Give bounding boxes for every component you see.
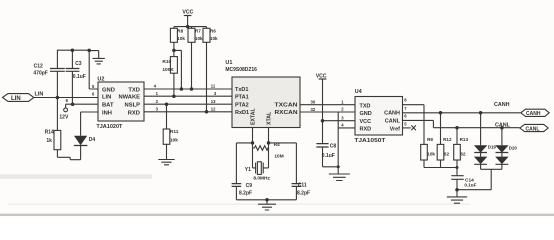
svg-text:1k: 1k (46, 138, 52, 144)
svg-text:CANH: CANH (526, 111, 541, 117)
svg-text:NWAKE: NWAKE (119, 95, 141, 101)
svg-text:0.1uF: 0.1uF (73, 74, 86, 80)
svg-text:Y1: Y1 (245, 167, 251, 173)
svg-text:D20: D20 (509, 145, 518, 150)
svg-text:TXD: TXD (360, 104, 371, 110)
svg-text:12: 12 (211, 107, 216, 112)
svg-text:U4: U4 (355, 89, 363, 95)
svg-text:10k: 10k (210, 36, 218, 41)
svg-text:8.2pF: 8.2pF (239, 191, 252, 197)
svg-text:CANL: CANL (495, 123, 511, 129)
svg-text:VCC: VCC (182, 10, 193, 16)
svg-text:C3: C3 (75, 61, 82, 67)
svg-text:TJA1050T: TJA1050T (354, 138, 386, 144)
svg-text:13: 13 (211, 99, 216, 104)
svg-text:TxD1: TxD1 (235, 87, 248, 93)
svg-text:R10: R10 (162, 59, 171, 65)
svg-text:RxD1: RxD1 (235, 110, 249, 116)
svg-text:VCC: VCC (316, 74, 327, 80)
svg-text:U2: U2 (97, 77, 104, 83)
svg-text:GND: GND (102, 87, 115, 93)
svg-text:C8: C8 (330, 144, 337, 150)
svg-text:100K: 100K (162, 67, 174, 73)
svg-text:TXCAN: TXCAN (275, 102, 298, 108)
svg-text:0.1uF: 0.1uF (464, 183, 476, 188)
svg-text:32: 32 (311, 107, 316, 112)
svg-text:CANH: CANH (384, 111, 400, 117)
svg-text:INH: INH (102, 110, 112, 116)
svg-text:R13: R13 (460, 137, 469, 142)
svg-text:CANL: CANL (526, 127, 540, 133)
svg-text:R12: R12 (443, 137, 452, 142)
svg-text:LIN: LIN (102, 95, 111, 101)
svg-text:62: 62 (444, 151, 450, 156)
svg-text:GND: GND (360, 111, 372, 117)
svg-text:C11: C11 (298, 183, 307, 189)
svg-text:MC9S08DZ16: MC9S08DZ16 (225, 67, 257, 73)
svg-text:Vref: Vref (390, 126, 401, 132)
svg-text:10k: 10k (170, 137, 178, 143)
svg-text:TXD: TXD (128, 87, 140, 93)
svg-text:D19: D19 (488, 144, 497, 149)
svg-text:R14: R14 (45, 129, 54, 135)
svg-text:RXD: RXD (360, 127, 372, 133)
svg-text:PTA1: PTA1 (235, 94, 249, 100)
svg-text:R8: R8 (177, 29, 183, 34)
svg-text:LIN: LIN (11, 96, 21, 102)
svg-text:470pF: 470pF (33, 70, 47, 76)
svg-text:R7: R7 (195, 29, 201, 34)
svg-text:D4: D4 (89, 137, 96, 143)
svg-text:8.0MHz: 8.0MHz (253, 176, 270, 182)
svg-text:C9: C9 (246, 183, 253, 189)
svg-text:11: 11 (211, 84, 216, 89)
svg-text:12V: 12V (59, 115, 69, 121)
svg-text:8.2pF: 8.2pF (297, 191, 310, 197)
svg-text:10k: 10k (177, 36, 185, 41)
svg-text:U1: U1 (225, 60, 232, 66)
svg-text:PTA2: PTA2 (235, 102, 249, 108)
svg-text:C12: C12 (34, 64, 43, 70)
svg-text:10k: 10k (427, 151, 435, 156)
svg-text:R6: R6 (210, 29, 216, 34)
svg-text:R11: R11 (170, 129, 179, 135)
svg-text:10M: 10M (274, 154, 283, 160)
svg-text:CANL: CANL (385, 119, 401, 125)
svg-text:VCC: VCC (360, 119, 372, 125)
svg-text:CANH: CANH (494, 102, 510, 108)
svg-text:0.1uF: 0.1uF (322, 153, 335, 159)
svg-text:62: 62 (460, 151, 466, 156)
svg-text:10k: 10k (195, 36, 203, 41)
svg-text:XTAL: XTAL (267, 111, 273, 125)
svg-text:BAT: BAT (102, 103, 114, 109)
svg-text:EXTAL: EXTAL (251, 108, 257, 125)
svg-text:R4: R4 (274, 142, 280, 147)
svg-text:LIN: LIN (35, 92, 44, 98)
svg-text:RXD: RXD (128, 110, 140, 116)
svg-text:R9: R9 (427, 137, 433, 142)
svg-text:TJA1020T: TJA1020T (96, 124, 123, 130)
svg-text:RXCAN: RXCAN (275, 110, 298, 116)
svg-text:NSLP: NSLP (125, 103, 141, 109)
svg-text:30: 30 (311, 99, 316, 104)
